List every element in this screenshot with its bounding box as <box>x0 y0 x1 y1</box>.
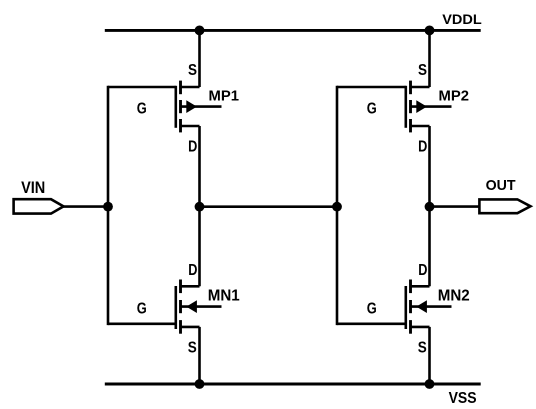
svg-text:S: S <box>418 62 427 79</box>
svg-text:G: G <box>137 101 147 118</box>
svg-text:D: D <box>188 138 197 155</box>
svg-text:S: S <box>188 340 197 357</box>
svg-text:G: G <box>137 301 147 318</box>
svg-text:VDDL: VDDL <box>442 11 482 27</box>
svg-text:D: D <box>418 138 427 155</box>
svg-text:D: D <box>188 262 197 279</box>
svg-text:G: G <box>367 301 377 318</box>
svg-text:VIN: VIN <box>21 179 45 197</box>
svg-text:S: S <box>188 62 197 79</box>
svg-text:S: S <box>418 340 427 357</box>
svg-text:MP2: MP2 <box>439 87 470 104</box>
svg-text:OUT: OUT <box>486 177 516 194</box>
svg-text:MN2: MN2 <box>438 287 470 304</box>
svg-text:G: G <box>367 101 377 118</box>
svg-text:MP1: MP1 <box>209 87 240 104</box>
svg-text:VSS: VSS <box>449 390 477 407</box>
svg-text:MN1: MN1 <box>208 287 240 304</box>
svg-text:D: D <box>418 262 427 279</box>
